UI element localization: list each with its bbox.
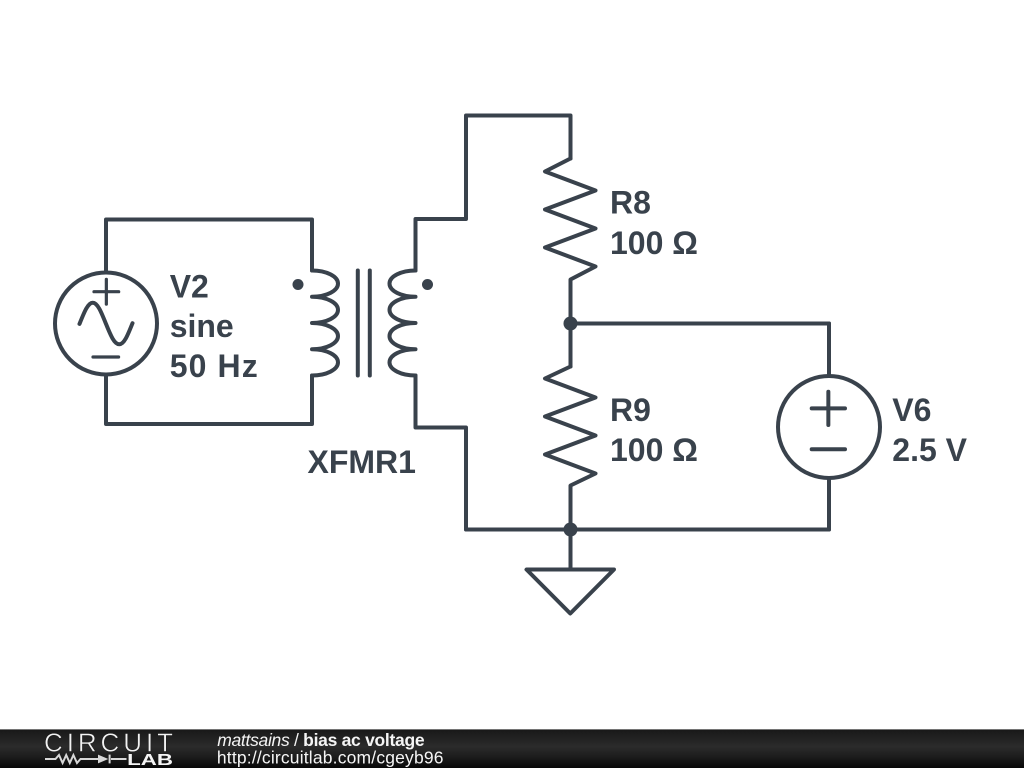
svg-text:V6: V6: [892, 392, 931, 428]
svg-text:V2: V2: [170, 269, 209, 305]
svg-text:100 Ω: 100 Ω: [610, 225, 698, 261]
svg-text:100 Ω: 100 Ω: [610, 432, 698, 468]
svg-text:XFMR1: XFMR1: [308, 444, 416, 480]
svg-text:http://circuitlab.com/cgeyb96: http://circuitlab.com/cgeyb96: [217, 747, 444, 767]
svg-text:R9: R9: [610, 392, 651, 428]
svg-text:sine: sine: [170, 308, 234, 344]
svg-text:LAB: LAB: [127, 752, 173, 768]
svg-text:2.5 V: 2.5 V: [892, 432, 967, 468]
svg-text:50 Hz: 50 Hz: [170, 348, 258, 384]
svg-text:R8: R8: [610, 185, 651, 221]
